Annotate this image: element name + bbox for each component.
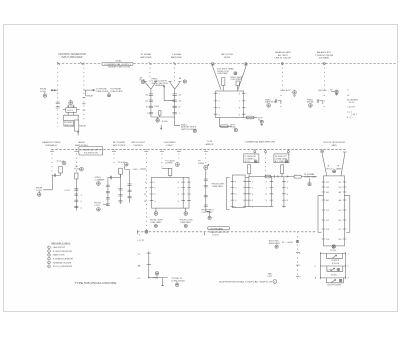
pin tick M3 [296,275,299,277]
wire: V101 cathode tie [63,112,79,120]
svg-text:COMMERCIAL AMPLIFIER UNIT: COMMERCIAL AMPLIFIER UNIT [245,141,277,144]
wire: armor column [205,170,207,212]
internal divider V5 [182,177,184,208]
pin ticks V9 left [322,182,326,239]
svg-text:CONNECT: CONNECT [245,159,256,161]
svg-text:DRIVE: DRIVE [224,57,231,59]
wire: drop to amp unit A label (dotted) [254,149,256,155]
svg-text:C-521: C-521 [64,190,71,192]
svg-text:COIL PREP: COIL PREP [230,79,242,81]
svg-text:B LIGHT RESISTOR: B LIGHT RESISTOR [53,251,73,253]
svg-text:LINER: LINER [166,145,173,147]
wire: drop to gate pickoff (dotted) [281,64,283,90]
svg-text:BALANCE POWER: BALANCE POWER [42,141,61,144]
wire: R501 bottom elbow [52,173,60,175]
svg-text:CIRCUIT REGULATOR: CIRCUIT REGULATOR [323,141,345,144]
test point TP26 [275,245,278,248]
wire: drop to valve amp stage (dotted) [75,149,77,173]
svg-text:A-TP: A-TP [286,89,291,92]
capacitor C207 [173,100,177,101]
capacitor C512 [119,195,123,196]
test point TP21 [208,216,211,219]
wire: drop to T signal amp (dotted) [174,64,176,82]
svg-text:S.T.D.: S.T.D. [245,161,251,163]
wire: TP1 to V101 pins [68,105,74,108]
svg-text:MATERIAL SYMBOL: MATERIAL SYMBOL [51,242,71,245]
svg-text:GENERAL SOLATE: GENERAL SOLATE [53,261,72,264]
arrow: to deflection [161,125,162,130]
resistor R915 rung [320,277,345,280]
svg-text:LOW: LOW [327,270,332,272]
svg-text:D-501: D-501 [40,91,47,93]
wire: input lead from J1 [51,89,58,91]
pin 1 tick V101 left [63,109,66,111]
svg-text:4-405: 4-405 [231,127,237,129]
svg-text:RELAY: RELAY [87,95,94,98]
capacitor tick C102 on grid drop [56,107,60,108]
test point TP13 [80,167,84,171]
capacitor C511 [119,189,123,190]
wire: oscillator injection with up arrow [163,85,174,100]
svg-text:BRD IN LIGHT: BRD IN LIGHT [131,142,145,144]
pin tick H1 [147,252,151,254]
svg-text:W. SIGNAL: W. SIGNAL [304,173,315,176]
wire: elbow connector [278,101,281,105]
wire: drop to mix pickoff (dotted) [323,64,325,90]
capacitor C508 [106,191,110,192]
wire: drop to relay feed (dotted) [83,64,85,123]
svg-text:T. SIDE BY PHONE: T. SIDE BY PHONE [315,55,334,57]
capacitor C206 [173,94,177,95]
wire: drop to amp unit B label (dotted) [287,149,289,155]
svg-text:SWITCH DRIVE: SWITCH DRIVE [181,129,197,131]
box: annotation W shrout [274,154,289,163]
tube box V7 envelope [249,176,272,206]
svg-text:B GREAT ELEVATOR: B GREAT ELEVATOR [53,258,74,261]
ground G6 [154,224,157,227]
wire: drop to input amplifier grid (dotted) [57,64,59,128]
svg-text:TP R-53: TP R-53 [118,162,127,164]
test point TP15 [97,182,101,186]
svg-text:4 + ( ): 4 + ( ) [347,117,353,119]
tube V202 cathode V wires [169,82,182,90]
capacitor C509 [106,198,110,199]
wire: V202 column to trigger pickoff [175,117,180,126]
svg-text:HOLD: HOLD [327,168,333,170]
tube box V301 envelope [216,91,244,118]
resistor R503 [119,168,123,174]
svg-text:COMP R: COMP R [331,260,340,262]
svg-text:VALVE: VALVE [78,141,85,144]
wire: heater output lead [149,277,168,279]
potentiometer arrow R916 [332,280,336,283]
svg-text:R-DA: R-DA [139,79,145,82]
ground G9 at CRT cathode [332,245,335,248]
resistor R912 rung [320,265,345,268]
svg-text:T. SIGNAL: T. SIGNAL [172,53,183,56]
test point TP24 [333,170,336,173]
wire: dotted drop end bar [322,89,326,91]
svg-text:PHONICS: PHONICS [133,145,143,147]
test point TP18 below box left [155,208,157,212]
node: junction dot [78,132,79,133]
pin dot F1 [324,94,325,96]
resistor R603 capsule [294,175,302,178]
capacitor C501 [54,174,55,177]
test point TP9 [267,104,271,108]
pin ticks V8 [282,181,286,206]
wire: funnel right leg [341,152,347,176]
capacitor C503 [74,194,78,195]
connector pins J2 [93,89,94,90]
wire: funnel right leg [238,64,248,90]
wire: heater column [148,251,150,277]
svg-text:R-520: R-520 [74,169,81,171]
svg-text:D-515: D-515 [36,190,43,192]
arrow ticks on plate bus [275,175,289,178]
pin ticks V7 right [270,181,274,206]
svg-text:BRIGHT SECTION: BRIGHT SECTION [109,67,131,69]
svg-text:I-540: I-540 [133,169,139,171]
test point TP20 [204,166,208,170]
svg-text:L-40 TR: L-40 TR [347,106,355,108]
wire: V8 pin column [283,177,285,208]
test point TP25 on bus [145,230,148,233]
capacitor C515 [128,190,132,191]
capacitor C505 [74,206,78,207]
capacitor C405 [275,99,276,103]
svg-text:L-531: L-531 [94,205,100,207]
svg-text:W. SIGNAL: W. SIGNAL [141,53,152,56]
wire: TP11 lead [331,91,335,93]
test point TP10 [309,104,313,108]
wire: drop to balance power stage (dotted) [51,149,53,175]
svg-text:LINE W. CIRCUIT: LINE W. CIRCUIT [275,58,292,60]
svg-text:R-916: R-916 [331,275,338,277]
ground G5 [38,191,40,193]
capacitor C203 [149,106,153,107]
svg-text:(40): (40) [318,90,322,92]
svg-text:LATCH TRIG: LATCH TRIG [221,53,234,56]
symbol: legend circle 4 [48,257,51,260]
wire: main B+ supply bus (dashed) [58,63,397,65]
resistor R303 capsule [221,125,229,128]
ground G10 [176,281,178,283]
symbol: legend circle 1 [48,246,51,249]
ground G4 [335,94,338,96]
pin dot F3 [324,106,325,108]
wire: stub with tick [161,278,164,286]
pin ticks V301 left [214,93,218,114]
pin ticks V7 left [247,181,251,206]
svg-text:W: W [347,95,349,97]
test point TP6 [260,120,263,123]
resistor R602 [280,165,283,174]
capacitor C507 [106,185,110,186]
node: drop tick bars [58,62,84,64]
wire: R601 to box A [248,174,250,177]
svg-text:I-3456: I-3456 [198,163,205,165]
svg-text:A.T. LINE: A.T. LINE [275,160,284,163]
capacitor C506 [110,176,111,179]
ground G11 [293,95,295,98]
wire: R602 to pin column [281,174,283,177]
test point TP14 [125,163,129,167]
pin tick M2 [296,264,299,266]
test point TP17 [176,163,180,167]
symbol: legend circle 6 [48,265,51,268]
wire: elbow connector [319,101,322,105]
wire: V202 output column [174,89,176,117]
potentiometer loop R914 [327,266,343,271]
svg-text:R-206: R-206 [162,121,169,123]
wire: valve column [75,179,77,211]
pin 5 tick V101 right [77,109,80,111]
symbol: circled 1 [273,280,277,284]
capacitor tick C101 on grid drop [56,102,60,103]
wire: V201 output column [150,89,152,117]
node: junction circle at funnel left leg [321,150,323,152]
wire: chain right rail [345,253,347,278]
svg-text:LAG GROUP: LAG GROUP [53,246,66,249]
svg-text:TUBE PART: TUBE PART [180,221,192,224]
svg-text:LINE PREP: LINE PREP [217,73,228,75]
capacitor C209 [173,113,177,114]
svg-text:} 40 T: } 40 T [352,114,358,116]
svg-text:DI-25: DI-25 [349,102,355,104]
svg-text:BALANCE ACT: BALANCE ACT [317,51,332,54]
svg-text:GATE: GATE [331,144,337,147]
svg-text:CONTROL GENERATOR: CONTROL GENERATOR [58,53,86,56]
svg-text:W. SHROUT: W. SHROUT [275,156,288,158]
capacitor C406 [317,99,318,103]
test point TP23 [285,160,288,163]
svg-text:RELAY: RELAY [79,124,86,127]
test point TP7 [234,128,237,131]
svg-text:TUBE PART: TUBE PART [212,185,224,188]
svg-text:BALANCE GATE: BALANCE GATE [275,51,291,54]
pin tick M1 [296,252,299,254]
pin dot E3 [280,106,281,108]
wire: relay output lead [84,89,95,91]
svg-text:DI-150: DI-150 [213,234,220,236]
wire: drop to tube box (dotted) [178,149,180,161]
box: commercial supply tag [79,146,103,155]
capacitor C504 [74,200,78,201]
ground G7 [184,224,187,227]
node: drop ticks below LV bus [50,151,208,153]
svg-text:TP R-10: TP R-10 [67,106,76,108]
wire: elbow to ground stem [206,211,210,216]
pin tick H2 [147,264,151,266]
svg-text:COMB TRAV: COMB TRAV [275,158,288,161]
capacitor C533 [204,205,208,206]
ground G3 [156,119,159,122]
svg-text:R-910: R-910 [330,250,337,252]
svg-text:LIST: LIST [268,276,273,278]
wire: right bracket [345,196,350,233]
box: annotation P shroud [244,154,259,163]
wire: K102 to lower node [77,131,79,135]
resistor R502 [75,173,78,179]
pin ticks V6 right [243,181,247,206]
svg-text:STORAGE: STORAGE [319,57,330,60]
svg-text:I-OVEN: I-OVEN [165,163,173,165]
svg-text:FREQ: FREQ [153,278,159,280]
svg-text:TV IN: TV IN [207,141,213,143]
svg-text:415 AC: 415 AC [115,59,122,62]
resistor R302 [236,81,239,85]
wire: R201 stem [159,115,161,117]
ground G2 [108,92,110,94]
svg-text:SUPERVISORIAL DISPLAY SWITCH: SUPERVISORIAL DISPLAY SWITCH [219,281,273,284]
node: bus junction at gate drop [281,63,283,65]
test point TP28 [337,268,340,271]
wire: output lead right [244,117,258,119]
resistor R910 rung [320,252,345,255]
svg-text:AMPLIFIER: AMPLIFIER [141,56,152,59]
pin ticks V5 left edge [150,182,154,201]
wire: chain left rail [319,253,321,278]
svg-text:SOUTH LIGHT: SOUTH LIGHT [327,284,342,286]
capacitor C531 [204,186,208,187]
wire: second supply bus (dashed) [50,146,346,231]
wire: I-540 lead [140,168,146,170]
ground G8 [309,179,311,183]
test point TP1 [69,101,73,105]
wire: grid feed elbow [162,167,170,169]
capacitor C532 [204,195,208,196]
potentiometer loop R911 [326,253,342,258]
wire: R504 into box [169,176,171,178]
wire: cathode bottom tie [151,116,175,118]
test point TP29 [339,279,342,282]
svg-text:V-101: V-101 [67,110,73,112]
pin ticks V5 divider [181,182,185,201]
tube box V5 envelope [152,177,190,208]
test point TP22 [254,160,257,163]
svg-text:P. SHROUD: P. SHROUD [245,156,257,158]
pin ticks V6 left [231,181,235,206]
wire: drop to alt power stage (dotted) [113,149,115,164]
wire: drop to TV armor stage (dotted) [205,149,207,165]
capacitor C516 [128,196,132,197]
pin ticks V5 right edge [187,182,191,201]
svg-text:TUBE PLATE: TUBE PLATE [110,90,123,93]
wire: alt power column [107,178,109,207]
svg-text:ALL SHOT: ALL SHOT [278,54,289,57]
wire: top tie V6-V7 [245,177,249,179]
pin dot E1 [280,94,281,96]
svg-text:PLUG ( ) REGISTER: PLUG ( ) REGISTER [53,266,73,268]
svg-text:GENERAL: GENERAL [155,84,166,87]
box: power switch S101 [64,121,74,126]
svg-text:TYPE 545 OSCILLOSCOPE: TYPE 545 OSCILLOSCOPE [75,281,117,285]
resistor R304 capsule [246,116,254,119]
svg-text:AMPLIFIER: AMPLIFIER [171,56,182,59]
box: commercial supply tag on bus [102,62,133,65]
pin ticks on relay drop [82,98,85,111]
symbol: legend circle 5 [48,261,51,264]
box: CRT regard tag [208,227,230,230]
resistor R501 [59,167,63,174]
capacitor C202 [149,100,153,101]
svg-text:LO: LO [138,278,141,280]
potentiometer arrow R911 [333,255,337,258]
wire: R302 stem [237,85,239,91]
wire: input rail [108,177,121,179]
test point TP3 [183,80,186,83]
node: bus junction at funnel left [212,63,214,65]
resistor R201 [159,111,161,115]
test point TP2 [141,80,144,83]
node: junction H3 [148,277,149,278]
svg-text:TAB: TAB [268,272,273,275]
CRT box V9 envelope [323,176,344,246]
wire: drop to brd light stage (dotted, continues to LV bus) [145,149,147,231]
svg-text:THERMALLY: THERMALLY [45,144,58,147]
pin ticks V9 right [343,182,347,239]
test point TP4 [193,129,196,132]
pin ticks V301 right [242,93,246,114]
box: relay K102 [75,120,79,131]
svg-text:SOLA SECTION: SOLA SECTION [84,152,99,155]
svg-text:TRACK LIGHT 2173: TRACK LIGHT 2173 [209,231,229,234]
test point TP19 below box divider [185,208,187,212]
svg-text:GATE IN AT: GATE IN AT [265,101,277,104]
tube V201 cathode V wires [144,82,157,90]
svg-text:MIX AT: MIX AT [307,101,314,104]
svg-text:INPUT AMPLIFIER: INPUT AMPLIFIER [62,56,83,59]
wire: dotted measuring column [297,232,299,279]
capacitor C530 [204,179,208,180]
svg-text:AMPLIFYING: AMPLIFYING [75,144,88,147]
wire: left bracket [318,196,323,233]
test point TP12 [62,161,66,165]
node: tick at amp drops [57,62,176,65]
test point TP16 [97,208,101,212]
tube box V6 envelope [233,175,246,208]
tube V101 envelope box [66,108,77,113]
potentiometer arrow R914 [331,268,335,271]
svg-text:TUBE PLATE: TUBE PLATE [96,90,109,93]
wire: funnel left leg [211,64,221,90]
svg-text:CRT REGARD: CRT REGARD [210,227,224,230]
test point TP11 [335,90,338,93]
capacitor C204 [149,113,153,114]
resistor R604 capsule [265,175,271,178]
symbol: legend circle 2 [48,250,51,253]
svg-text:I-204: I-204 [154,106,160,108]
pin dot E2 [280,100,281,102]
node: bus junction at funnel right [245,63,247,65]
wire: funnel left leg [320,152,327,176]
wire: drop to W signal amp (dotted) [149,64,151,82]
capacitor C201 [149,94,153,95]
svg-text:LAMP: LAMP [336,167,342,170]
test point TP5 [234,72,237,75]
wire: drop to liner stage (dotted) [161,149,163,168]
svg-text:R-917A: R-917A [332,262,340,265]
wire: drop to plate bus (dotted) [265,149,267,176]
potentiometer loop R916 [326,278,343,283]
svg-text:W — 40-60: W — 40-60 [282,242,293,244]
test point TP27 on column [296,240,298,242]
svg-text:REGULATE: REGULATE [269,242,281,245]
svg-text:L-( ) TR: L-( ) TR [137,240,145,242]
resistor R601 [248,165,251,174]
wire: lower input lead [103,203,108,205]
